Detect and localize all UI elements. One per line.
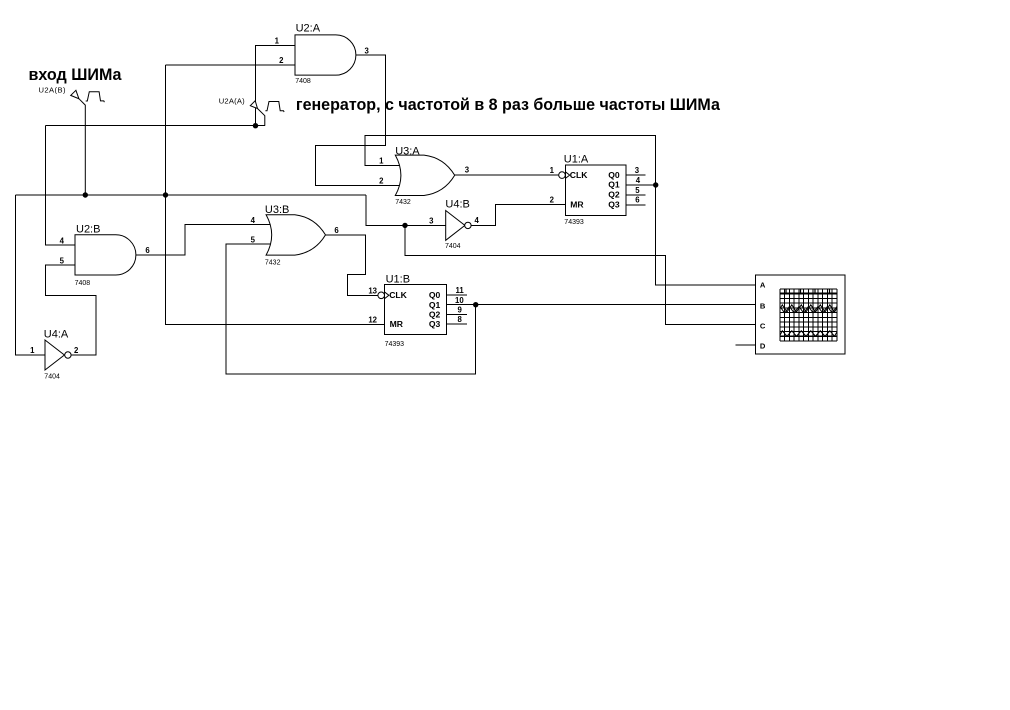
- wire U1:B Q1 to display B: [446, 304, 755, 306]
- wire PWM left branch to U4:A input: [16, 195, 45, 355]
- svg-text:7404: 7404: [445, 243, 461, 250]
- svg-text:CLK: CLK: [389, 290, 407, 300]
- display trace zigzag upper 2: [780, 307, 837, 314]
- svg-text:12: 12: [368, 316, 377, 325]
- svg-text:7408: 7408: [295, 78, 311, 85]
- junction node U1:A Q1 feedback: [653, 182, 658, 187]
- and-gate U2:B: [60, 223, 151, 287]
- svg-text:A: A: [760, 281, 766, 290]
- counter U1:A 74393: [550, 153, 641, 226]
- svg-text:2: 2: [279, 56, 284, 65]
- svg-text:5: 5: [635, 186, 640, 195]
- wire U1:A Q3 stub: [626, 204, 645, 206]
- counter U1:B 74393: [368, 274, 464, 348]
- junction node PWM/source: [83, 192, 88, 197]
- junction node generator/U2:A pin1: [253, 123, 258, 128]
- wire U1:B Q3 stub: [446, 323, 467, 325]
- display trace mid line: [780, 317, 837, 319]
- svg-text:B: B: [760, 301, 766, 310]
- svg-text:10: 10: [455, 296, 464, 305]
- svg-text:U2:B: U2:B: [76, 223, 100, 235]
- or-gate U3:B: [251, 204, 340, 267]
- svg-text:Q3: Q3: [429, 319, 441, 329]
- wire generator A net horizontal y=125.7: [45, 125, 264, 127]
- svg-text:1: 1: [379, 157, 384, 166]
- not-gate U4:B: [429, 199, 479, 251]
- svg-text:Q1: Q1: [429, 300, 441, 310]
- wire PWM input net horizontal y=195: [16, 194, 366, 196]
- wire U2:B output to U3:B pin4: [136, 225, 275, 255]
- svg-text:D: D: [760, 341, 766, 350]
- wire U3:A output to U1:A CLK: [455, 174, 560, 176]
- svg-text:3: 3: [635, 166, 640, 175]
- svg-text:4: 4: [60, 237, 65, 246]
- svg-text:C: C: [760, 321, 766, 330]
- svg-text:5: 5: [60, 256, 65, 265]
- or-gate U3:A: [379, 146, 470, 207]
- wire PWM net to U4:B input: [366, 195, 446, 225]
- wire U4:B output to U1:A MR: [471, 205, 566, 226]
- svg-text:U3:A: U3:A: [395, 146, 420, 158]
- wire U3:B pin5 from U1:B Q1 feedback: [226, 244, 476, 374]
- junction node U1:B Q1 feedback: [473, 302, 478, 307]
- svg-text:U2A(B): U2A(B): [39, 85, 66, 94]
- svg-text:5: 5: [251, 236, 256, 245]
- svg-text:1: 1: [550, 166, 555, 175]
- svg-text:7408: 7408: [75, 280, 91, 287]
- svg-text:генератор, с частотой в 8 раз: генератор, с частотой в 8 раз больше час…: [296, 95, 721, 114]
- svg-text:6: 6: [145, 246, 150, 255]
- svg-text:13: 13: [368, 287, 377, 296]
- wire U2:A output to U3:A pin2: [315, 55, 403, 186]
- svg-text:U1:A: U1:A: [564, 153, 589, 165]
- svg-text:3: 3: [365, 46, 370, 55]
- svg-text:74393: 74393: [564, 219, 584, 226]
- svg-text:8: 8: [458, 315, 463, 324]
- svg-text:11: 11: [456, 286, 465, 295]
- wire U1:B Q2 stub: [446, 313, 467, 315]
- svg-text:2: 2: [74, 346, 79, 355]
- display trace row1: [780, 292, 837, 294]
- wire U2:A pin2 horizontal: [166, 64, 296, 66]
- svg-text:U2A(A): U2A(A): [219, 97, 245, 106]
- svg-text:U4:B: U4:B: [445, 199, 469, 211]
- svg-text:1: 1: [275, 36, 280, 45]
- svg-text:MR: MR: [390, 319, 404, 329]
- wire PWM branch to display C: [405, 225, 755, 324]
- display trace lower baseline: [780, 335, 837, 337]
- wire generator net to U2:B pin4: [45, 126, 75, 245]
- svg-text:Q0: Q0: [429, 290, 441, 300]
- svg-text:4: 4: [475, 216, 480, 225]
- wire U1:A Q1 to feedback vertical: [626, 184, 656, 186]
- wire U3:A pin1 feedback net y=135.7: [365, 136, 755, 285]
- svg-text:3: 3: [429, 216, 434, 225]
- wire U3:B output to U1:B CLK: [326, 235, 378, 295]
- svg-text:U3:B: U3:B: [265, 204, 289, 216]
- svg-text:7432: 7432: [265, 260, 281, 267]
- svg-text:Q3: Q3: [608, 200, 620, 210]
- svg-text:9: 9: [458, 306, 463, 315]
- svg-text:вход ШИМа: вход ШИМа: [29, 65, 123, 84]
- svg-text:7404: 7404: [44, 373, 60, 380]
- wire U1:A Q0 stub: [626, 174, 645, 176]
- and-gate U2:A: [275, 22, 370, 85]
- svg-text:U1:B: U1:B: [386, 274, 410, 286]
- display trace zigzag upper: [780, 305, 837, 312]
- svg-text:7432: 7432: [395, 199, 411, 206]
- display trace zigzag lower: [780, 331, 837, 336]
- wire U2:A pin2 net vertical x=165.5 down to U1:B MR: [166, 65, 385, 325]
- svg-text:4: 4: [251, 216, 256, 225]
- svg-text:MR: MR: [570, 200, 584, 210]
- wire display D stub: [736, 344, 756, 346]
- svg-text:1: 1: [30, 346, 35, 355]
- stimulus source U2A(B): [39, 85, 105, 195]
- junction node PWM/display C branch: [402, 223, 407, 228]
- svg-text:U4:A: U4:A: [44, 329, 69, 341]
- svg-text:Q2: Q2: [429, 310, 441, 320]
- svg-text:Q1: Q1: [608, 180, 620, 190]
- svg-text:6: 6: [635, 196, 640, 205]
- svg-text:74393: 74393: [385, 341, 405, 348]
- junction node PWM/U2:A pin2: [163, 192, 168, 197]
- wire U2:A pin1 from generator net: [256, 45, 296, 125]
- wire U2:B pin5 loop from U4:A output: [45, 265, 95, 355]
- svg-text:2: 2: [379, 177, 384, 186]
- display logic analyzer block: [755, 275, 845, 354]
- not-gate U4:A: [30, 329, 79, 381]
- svg-text:Q0: Q0: [608, 170, 620, 180]
- display trace pulses row1: [786, 289, 830, 293]
- svg-text:4: 4: [636, 176, 641, 185]
- wire U1:A Q2 stub: [626, 194, 645, 196]
- stimulus source U2A(A): [219, 97, 284, 126]
- svg-text:3: 3: [465, 166, 470, 175]
- svg-text:U2:A: U2:A: [296, 22, 321, 34]
- svg-text:6: 6: [334, 226, 339, 235]
- display grid: [780, 289, 837, 341]
- svg-text:2: 2: [550, 196, 555, 205]
- svg-text:CLK: CLK: [570, 170, 588, 180]
- wire U1:B Q0 stub: [446, 294, 467, 296]
- svg-text:Q2: Q2: [608, 190, 620, 200]
